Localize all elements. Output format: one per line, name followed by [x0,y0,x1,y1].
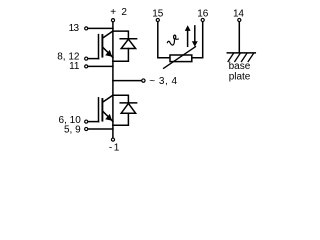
svg-text:16: 16 [197,9,209,20]
svg-text:14: 14 [233,9,244,20]
svg-text:plate: plate [229,71,251,82]
svg-text:~ 3, 4: ~ 3, 4 [149,76,177,87]
svg-text:- 1: - 1 [109,143,120,154]
svg-text:+ 2: + 2 [110,7,128,18]
svg-text:5, 9: 5, 9 [64,124,81,135]
svg-text:11: 11 [69,61,80,72]
svg-text:13: 13 [69,23,80,34]
svg-text:15: 15 [152,9,164,20]
svg-text:base: base [229,61,251,72]
